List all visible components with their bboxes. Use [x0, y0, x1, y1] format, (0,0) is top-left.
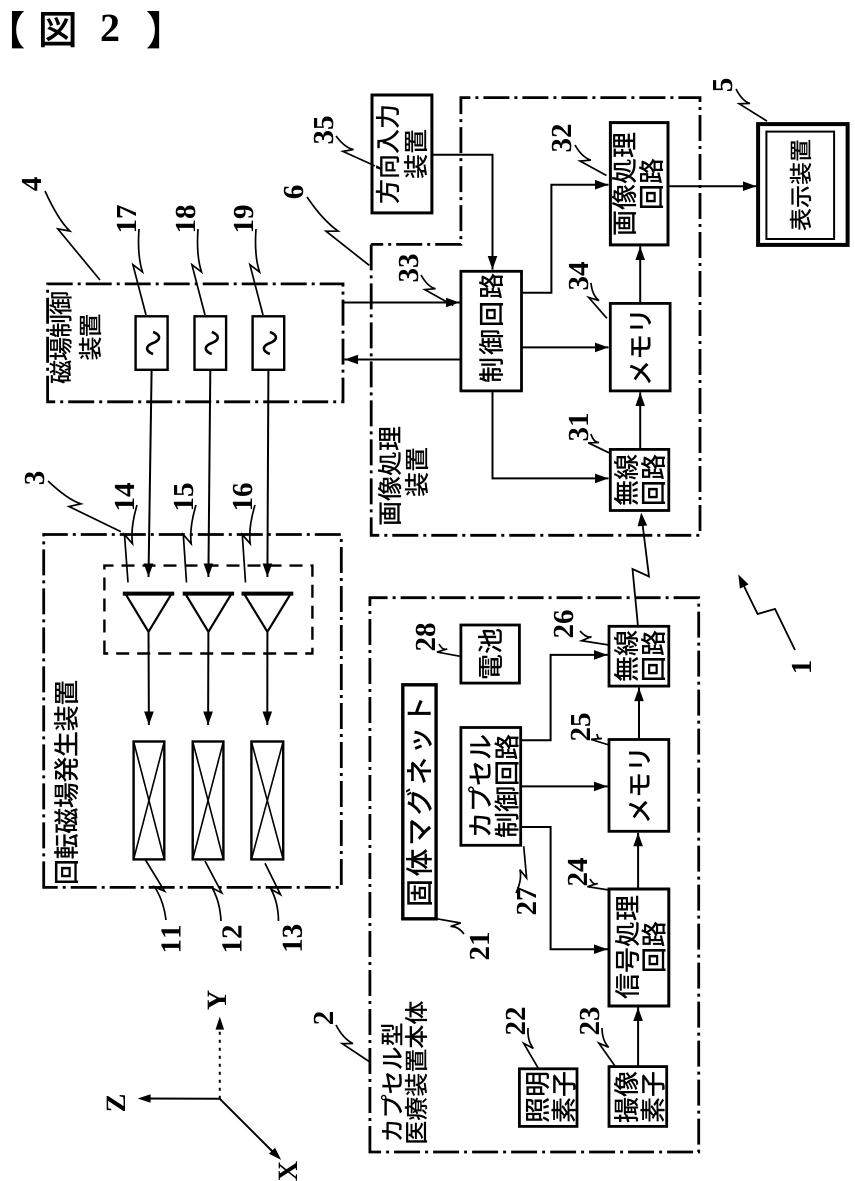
- wire AC source 17 to amplifier 14: [149, 370, 152, 577]
- AC oscillator box 17 with tilde: [136, 316, 168, 370]
- label 35: [314, 131, 333, 143]
- dash-dot box 6 image processing device (画像処理装置): [371, 98, 700, 536]
- label 27: [517, 902, 536, 914]
- wire image processing circuit 32 to display 5: [668, 185, 757, 187]
- label 17: [117, 221, 136, 232]
- label 28: [416, 638, 435, 650]
- label 31: [569, 428, 588, 440]
- wire memory 34 to image processing circuit 32: [639, 247, 641, 304]
- figure heading 【図 2】: [12, 11, 24, 48]
- box 31 wireless circuit (無線回路): [610, 449, 669, 510]
- wire amplifier 14 to coil 11: [148, 632, 150, 725]
- label 5: [713, 79, 732, 91]
- label 6: [284, 186, 303, 199]
- box 35 direction input device (方向入力装置): [372, 95, 432, 213]
- box 32 image processing circuit (画像処理回路): [610, 123, 668, 245]
- box 28 battery (電池): [461, 625, 520, 683]
- wire signal processing 24 to memory 25: [637, 833, 639, 889]
- wire memory 25 to wireless circuit 26: [638, 688, 640, 740]
- label 1 with arrow leader: [792, 661, 811, 672]
- label 4: [22, 177, 41, 191]
- coil crossed-box 11: [134, 742, 165, 860]
- label 14: [115, 499, 134, 510]
- label 22: [506, 1022, 525, 1034]
- box 5 display device inner frame: [766, 132, 834, 239]
- amplifier triangle 16: [244, 594, 291, 632]
- wire amplifier 15 to coil 12: [207, 632, 209, 725]
- box 33 control circuit (制御回路): [461, 271, 522, 391]
- wireless link zigzag between wireless circuits 26 and 31: [633, 520, 650, 626]
- label 34: [569, 277, 588, 289]
- box 25 memory (メモリ): [609, 740, 669, 832]
- box 22 illumination element (照明素子): [519, 1069, 577, 1127]
- label 32: [552, 139, 571, 151]
- wire capsule control 27 to wireless circuit 26: [521, 655, 608, 740]
- axis Y (right, dotted): [219, 1021, 221, 1099]
- AC oscillator box 18 with tilde: [195, 316, 227, 370]
- dash-dot box 4 magnetic-field control device (磁場制御装置): [48, 284, 343, 402]
- box 24 signal processing circuit (信号処理回路): [609, 889, 669, 1006]
- wire AC source 18 to amplifier 15: [208, 370, 210, 577]
- wire box4 to control circuit 33 (arrow down): [343, 302, 460, 304]
- wire control circuit 33 to memory 34: [522, 346, 609, 348]
- label 3: [25, 472, 44, 484]
- label 18: [176, 221, 195, 232]
- wire amplifier 16 to coil 13: [266, 632, 268, 725]
- wire capsule control 27 to signal processing 24: [521, 827, 608, 949]
- AC oscillator box 19 with tilde: [253, 316, 285, 370]
- box 27 capsule control circuit (カプセル制御回路): [461, 728, 521, 846]
- label 15: [174, 499, 193, 510]
- wire direction input 35 to control circuit 33: [432, 155, 493, 270]
- label 23: [580, 1022, 599, 1034]
- wire capsule control 27 to memory 25: [521, 785, 608, 787]
- label 26: [554, 625, 573, 637]
- label 21: [470, 947, 489, 959]
- label 2: [314, 1012, 333, 1024]
- wire wireless circuit 31 to memory 34: [639, 393, 641, 450]
- box 5 display device (表示装置) outer frame: [758, 124, 848, 245]
- label 11: [161, 941, 180, 952]
- coil crossed-box 12: [193, 742, 224, 860]
- wire control circuit 33 to image processing circuit 32: [522, 185, 609, 293]
- label 13: [283, 940, 302, 951]
- axis Z (up): [141, 1098, 220, 1100]
- label 16: [233, 499, 252, 510]
- axis X (down-left): [220, 1099, 278, 1157]
- dashed amplifier group box: [104, 566, 312, 654]
- wire control circuit 33 to wireless circuit 31: [493, 391, 609, 479]
- label 24: [568, 873, 587, 885]
- box 23 imaging element (撮像素子): [609, 1067, 667, 1127]
- coil crossed-box 13: [251, 742, 283, 860]
- label 12: [222, 941, 241, 952]
- wire AC source 19 to amplifier 16: [267, 370, 268, 577]
- wire control circuit 33 to box4 (arrow up): [345, 359, 461, 361]
- label 33: [399, 269, 418, 281]
- dash-dot box 3 rotating-magnetic-field generator (回転磁場発生装置): [44, 535, 342, 888]
- amplifier triangle 14: [125, 594, 171, 632]
- box 21 solid magnet (固体マグネット): [403, 685, 436, 919]
- box 26 wireless circuit (無線回路): [609, 626, 669, 686]
- box 34 memory (メモリ): [610, 303, 670, 391]
- label 19: [234, 221, 253, 232]
- label 25: [571, 728, 590, 740]
- amplifier triangle 15: [185, 594, 231, 632]
- wire imaging element 23 to signal processing 24: [637, 1008, 639, 1067]
- dash-dot box 2 capsule medical device body (カプセル型医療装置本体): [370, 598, 699, 1152]
